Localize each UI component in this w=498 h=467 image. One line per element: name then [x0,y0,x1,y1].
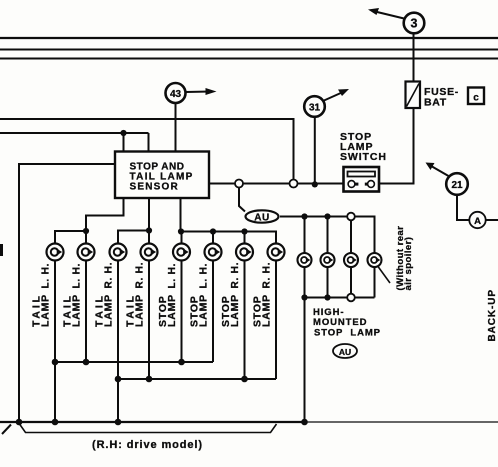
label without rear air spoiler [395,226,414,291]
connector open circle hm bottom [347,294,355,302]
lamp1 ground wire [54,261,56,422]
connector open circle 2 [290,180,298,188]
sensor pin bottom 2 riser [148,198,150,231]
pointer line lamp H4 [378,267,390,284]
svg-text:LAMP: LAMP [134,294,146,327]
lamp4 top stub [148,231,150,244]
junction dot 31-wire [312,181,318,187]
label stop lamp LH col5 [157,263,178,327]
op-amp U1 : stop and tail lamp sensor box [115,152,209,199]
ground bus [0,421,305,423]
lamp L8 stop lamp RH [268,244,285,261]
svg-text:A: A [474,216,481,227]
arrow at circle 3 [368,8,404,19]
lamp2 top stub [85,231,87,244]
junction dot hm bottom 2 [324,294,330,300]
connector AU oval 1 [246,210,279,223]
svg-text:3: 3 [411,17,418,31]
junction dot hm bottom 1 [301,294,307,300]
power bus line 1 [0,37,498,39]
wire sensor to switch [209,183,344,185]
lamp2 ground wire [85,261,87,362]
svg-text:BACK-UP: BACK-UP [487,289,498,341]
svg-text:21: 21 [451,180,463,191]
ground ladder line LH [55,361,213,363]
lamp6 top stub [212,232,214,244]
lamp L2 tail lamp LH [78,244,95,261]
lamp L3 tail lamp RH [110,244,127,261]
junction dot stop bus lamp7 [241,228,247,234]
svg-text:(R.H: drive model): (R.H: drive model) [92,439,203,451]
junction dots ladder LH [52,359,185,366]
sensor pin top 1 [123,133,125,152]
svg-text:LAMP: LAMP [166,294,178,327]
tail RH bus [118,231,149,244]
svg-text:43: 43 [170,89,182,100]
label tail lamp LH col2 [62,263,83,327]
svg-text:MOUNTED: MOUNTED [313,317,367,328]
lamp L5 stop lamp LH [173,244,190,261]
svg-text:R. H.: R. H. [230,262,241,289]
label FUSE-BAT [424,86,459,109]
lamp5 ground wire [181,261,183,362]
wire circle3 to fuse [413,34,415,82]
label tail lamp RH col3 [94,262,115,327]
svg-text:c: c [473,93,479,104]
hm lamp stubs bottom [305,267,375,298]
lamp7 ground wire [244,261,246,379]
junction dot tail LH [83,228,89,234]
lamp H3 high-mounted [344,253,358,267]
connector open circle hm top [347,213,355,221]
tail LH bus [55,231,86,244]
label stop lamp LH col6 [189,263,210,327]
wire circle43 to sensor [175,103,177,152]
hm ground wire down [304,298,306,423]
arrow at circle 31 [324,89,349,101]
power bus line 3 [0,58,498,60]
lamp L1 tail lamp LH [47,244,64,261]
svg-text:SENSOR: SENSOR [130,182,179,193]
svg-text:L. H.: L. H. [167,263,178,289]
label stop lamp RH col8 [252,262,273,327]
svg-text:LAMP: LAMP [229,294,241,327]
svg-text:AU: AU [254,213,269,224]
label stop lamp RH col7 [220,262,241,327]
svg-text:LAMP: LAMP [40,294,52,327]
lamp L6 stop lamp LH [205,244,222,261]
label tail lamp LH col1 [31,263,52,327]
svg-text:LAMP: LAMP [261,294,273,327]
connector AU oval 2 [333,344,357,358]
svg-text:air spoiler): air spoiler) [403,237,414,291]
lamp8 ground wire [275,261,277,379]
connector open circle 1 [235,180,243,188]
svg-text:L. H.: L. H. [72,263,83,289]
svg-text:L. H.: L. H. [41,263,52,289]
ground ladder line RH [118,378,276,380]
wire feed upper-left (to switch wire drop) [0,119,294,180]
junction dot tail RH [146,227,152,233]
connector circle 31 [304,96,325,117]
junction dot hm top 2 [324,213,330,219]
lamp6 ground wire [212,261,214,362]
connector circle 3 [404,13,425,34]
lamp H4 high-mounted [368,253,382,267]
junction dot stop bus lamp5 [178,228,184,234]
wire A to right edge [486,219,498,221]
wire fuse to stop lamp switch wire [413,108,415,184]
connector circle A [469,212,485,228]
sensor pin bottom 1 jog to tail LH bus [86,198,124,231]
connector circle 43 [166,83,186,103]
switch S1 : stop lamp switch [344,167,380,192]
label high-mounted stop lamp [313,307,381,339]
sensor ground wire left [19,164,115,422]
wire switch to fuse drop [379,183,414,185]
sensor pin top 2 [148,133,150,152]
junction dot stop bus lamp6 [210,228,216,234]
stop lamps bus [181,232,277,244]
svg-text:31: 31 [309,102,321,113]
arrow at circle 21 [426,163,449,177]
svg-text:LAMP: LAMP [198,294,210,327]
svg-text:AU: AU [339,347,351,357]
power bus line 2 [0,49,498,51]
svg-text:BAT: BAT [424,97,447,109]
connector circle 21 [446,173,468,195]
lamp H2 high-mounted [321,253,335,267]
lamp L7 stop lamp RH [236,244,253,261]
wire circle31 down to switch wire [314,117,316,184]
brace RH drive model [20,424,277,433]
junction dots ground bus [16,419,308,426]
lamp7 top stub [244,232,246,244]
svg-text:SWITCH: SWITCH [340,151,387,163]
lamp L4 tail lamp RH [141,244,158,261]
fuse FUSE-BAT [406,82,421,109]
wire AU to high-mounted bus [280,216,305,218]
svg-text:L. H.: L. H. [199,263,210,289]
junction dot on feed [120,130,126,136]
arrow at circle 43 [186,88,217,95]
svg-text:STOP LAMP: STOP LAMP [314,328,381,339]
svg-text:R. H.: R. H. [262,262,273,289]
lamp4 ground wire [148,261,150,379]
svg-text:LAMP: LAMP [71,294,83,327]
ground bus break tick [2,425,11,435]
connector box c [468,88,484,105]
high-mounted bottom bus [305,297,375,299]
lamp H1 high-mounted [298,253,312,267]
junction dot hm top 1 [301,213,307,219]
wire circle21 to connector A [457,195,470,220]
wire AU drop [239,188,245,212]
lamp3 ground wire [117,261,119,422]
hm lamp stubs top [305,217,352,254]
edge mark left [0,244,3,256]
svg-text:R. H.: R. H. [104,262,115,289]
label tail lamp RH col4 [125,262,146,327]
ground bus thin right [305,421,498,423]
label stop lamp switch [340,131,387,163]
junction dots ladder RH [115,376,248,383]
svg-text:LAMP: LAMP [103,294,115,327]
svg-text:R. H.: R. H. [135,262,146,289]
wire feed lower-left (to sensor) [0,132,149,134]
lamp5 top stub [181,232,183,244]
sensor pin bottom 3 riser [180,198,182,232]
high-mounted top bus [305,217,375,254]
